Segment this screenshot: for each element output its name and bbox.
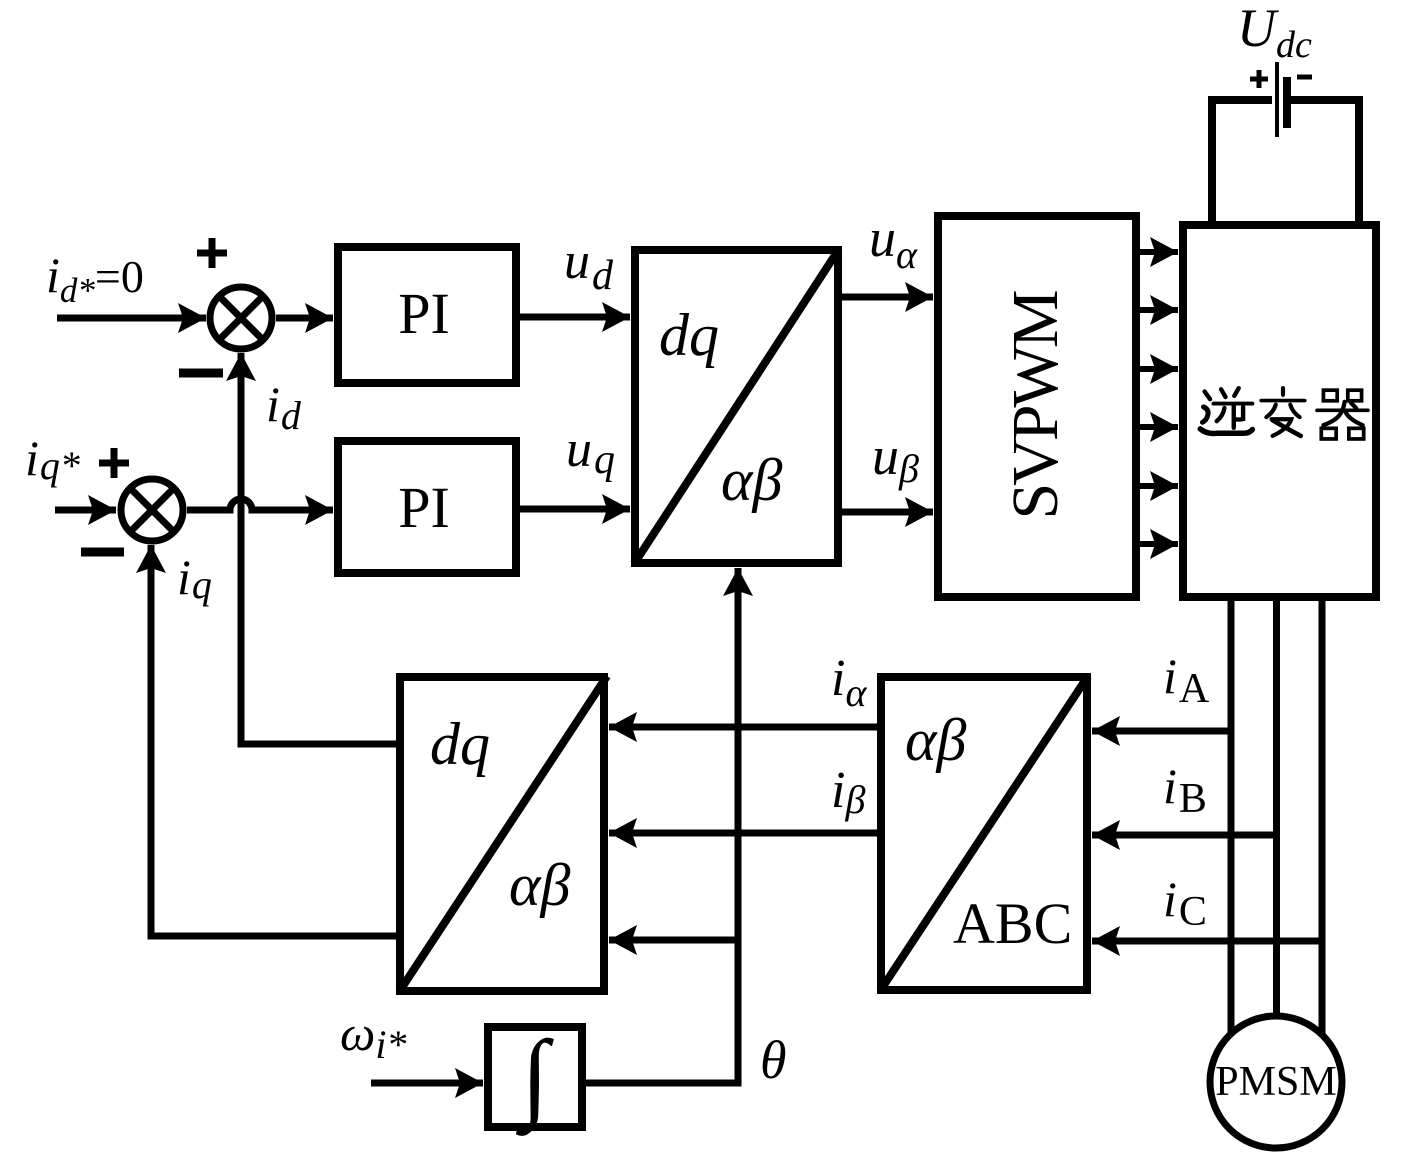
dq to alphabeta transform block U3 <box>634 249 839 564</box>
wires SVPWM to inverter (6 gate signals) <box>1140 252 1178 544</box>
PI controller PI1 <box>338 247 516 383</box>
svg-text:PI: PI <box>398 281 450 346</box>
inverter block U5 <box>1183 225 1376 597</box>
phase wire C <box>1319 601 1326 1035</box>
wire iB to abc block <box>1092 832 1277 839</box>
wire iA to abc block <box>1092 728 1231 735</box>
svg-text:θ: θ <box>760 1030 787 1090</box>
alphabeta to ABC clarke block U6 <box>880 676 1088 991</box>
wire ialpha to dq block <box>609 724 877 731</box>
phase wire B <box>1273 601 1280 1016</box>
wire id feedback <box>241 353 396 744</box>
svg-text:dq: dq <box>659 302 719 368</box>
battery minus sign <box>1297 75 1312 80</box>
minus sign S2 <box>81 548 124 557</box>
svg-text:PMSM: PMSM <box>1215 1059 1336 1105</box>
wire id* input <box>57 315 206 322</box>
plus sign S2 <box>99 448 129 478</box>
char bian (inverter label) <box>1261 388 1305 436</box>
wire PI2 to dq/ab (uq) <box>520 506 630 513</box>
inverter label CJK drawn strokes <box>1200 388 1368 439</box>
svg-text:dq: dq <box>430 711 490 777</box>
wire iC to abc block <box>1092 938 1322 945</box>
svg-text:αβ: αβ <box>905 707 966 773</box>
wire ua <box>842 294 933 301</box>
svg-text:ABC: ABC <box>953 891 1072 956</box>
battery plus sign <box>1250 70 1268 88</box>
wire ub <box>842 509 933 516</box>
svg-text:SVPWM: SVPWM <box>999 291 1072 519</box>
SVPWM block U4 <box>938 216 1136 597</box>
phase wire A <box>1228 601 1235 1034</box>
wire omega to integrator <box>371 1080 483 1087</box>
wire theta from integrator to U3 <box>586 568 738 1083</box>
PI controller PI2 <box>338 441 516 573</box>
wire ibeta to dq block <box>609 830 877 837</box>
svg-text:αβ: αβ <box>509 852 570 918</box>
integrator block U8 <box>488 1020 582 1136</box>
summing junction S1 <box>210 287 272 349</box>
wire iq* input <box>55 507 116 514</box>
char ni (inverter label) <box>1200 388 1252 433</box>
char qi (inverter label) <box>1317 390 1368 439</box>
wire theta branch to U7 <box>609 937 738 944</box>
PMSM motor M1 <box>1210 1016 1342 1148</box>
minus sign S1 <box>179 369 223 378</box>
dc bus loop wires <box>1212 100 1359 221</box>
plus sign S1 <box>197 238 227 268</box>
park transform block U7 (dq from alphabeta) <box>399 676 607 992</box>
svg-text:∫: ∫ <box>515 1020 554 1136</box>
wire S2 to PI2 with hop over id line <box>187 499 333 510</box>
svg-text:αβ: αβ <box>721 447 782 513</box>
wire iq feedback <box>151 545 396 936</box>
wire S1 to PI1 <box>276 315 333 322</box>
summing junction S2 <box>121 479 183 541</box>
wire PI1 to dq/ab (ud) <box>520 314 630 321</box>
svg-text:PI: PI <box>398 475 450 540</box>
battery Udc plates <box>1275 62 1279 137</box>
